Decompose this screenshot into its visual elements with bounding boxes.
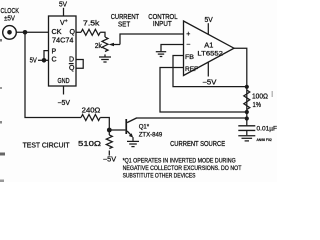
wire Q output: [76, 31, 81, 33]
svg-text:−5V: −5V: [57, 100, 70, 107]
svg-text:*Q1 OPERATES IN INVERTED MODE: *Q1 OPERATES IN INVERTED MODE DURING: [123, 157, 236, 164]
svg-text:ZTX-849: ZTX-849: [139, 132, 163, 139]
scan artifacts left edge: [0, 39, 273, 182]
ground cap: [238, 136, 255, 141]
ground pot: [99, 57, 111, 62]
wire junction up to P pin: [44, 51, 49, 61]
svg-text:SET: SET: [118, 21, 131, 28]
svg-text:7.5k: 7.5k: [83, 20, 100, 27]
svg-text:240Ω: 240Ω: [82, 107, 101, 114]
svg-text:SUBSTITUTE OTHER DEVICES: SUBSTITUTE OTHER DEVICES: [123, 172, 196, 179]
wire collector to sense node: [136, 117, 247, 119]
svg-text:−5V: −5V: [103, 157, 117, 164]
svg-text:Q: Q: [70, 29, 76, 36]
resistor R3 100 ohm 1%: [244, 90, 250, 110]
svg-text:REF: REF: [185, 66, 198, 73]
node clock junction: [23, 30, 28, 35]
clock connector J1: [0, 8, 19, 39]
svg-text:A1: A1: [204, 42, 213, 49]
wire 7.5k to pot top: [100, 32, 105, 37]
svg-text:Q1*: Q1*: [139, 123, 150, 130]
svg-text:INPUT: INPUT: [153, 21, 172, 28]
svg-text:CURRENT SOURCE: CURRENT SOURCE: [170, 141, 225, 148]
op-amp U2 LT6552: [184, 21, 235, 76]
svg-text:2k: 2k: [95, 43, 102, 50]
svg-text:74C74: 74C74: [52, 38, 74, 45]
svg-text:+: +: [65, 19, 68, 25]
node P/C junction: [42, 58, 47, 63]
svg-text:−: −: [186, 42, 190, 49]
flip-flop U1 74C74: [49, 16, 77, 86]
svg-text:Q: Q: [69, 65, 75, 72]
svg-text:−5V: −5V: [202, 79, 216, 86]
wire 240 to base node: [100, 118, 109, 131]
svg-text:+: +: [186, 31, 190, 38]
svg-text:D: D: [69, 56, 74, 63]
svg-text:5V: 5V: [30, 58, 37, 65]
svg-text:TEST CIRCUIT: TEST CIRCUIT: [23, 141, 71, 150]
node base junction: [107, 128, 112, 133]
transistor Q1 ZTX-849: [125, 118, 136, 138]
svg-text:NEGATIVE COLLECTOR EXCURSIONS.: NEGATIVE COLLECTOR EXCURSIONS. DO NOT: [123, 165, 242, 172]
node REF junction: [245, 110, 249, 114]
wire 5V to C pin: [38, 59, 49, 61]
svg-text:CLOCK: CLOCK: [0, 8, 19, 15]
ground emitter: [127, 141, 139, 146]
svg-text:5V: 5V: [59, 2, 67, 9]
wire clock down left side: [25, 32, 81, 117]
node collector junction: [245, 116, 249, 120]
svg-text:LT6552: LT6552: [197, 51, 223, 58]
wire emitter to ground: [132, 137, 134, 141]
ground minus input: [156, 52, 166, 57]
wire REF to bottom of sense resistor: [160, 68, 247, 113]
wire FB to top of sense resistor: [173, 56, 247, 87]
svg-text:CONTROL: CONTROL: [148, 14, 177, 21]
svg-text:1%: 1%: [253, 100, 262, 109]
svg-text:±5V: ±5V: [4, 16, 15, 23]
wire 5V to V+: [63, 8, 65, 16]
svg-text:P: P: [52, 49, 57, 56]
wiper arrow of pot: [109, 43, 114, 47]
svg-text:AN98 F02: AN98 F02: [257, 138, 272, 142]
capacitor C1 0.01uF: [238, 126, 255, 131]
wire - input to ground: [161, 45, 184, 52]
-5V supply op-amp: [207, 62, 209, 77]
svg-text:FB: FB: [185, 54, 194, 61]
svg-text:GND: GND: [57, 78, 69, 85]
svg-text:0.01µF: 0.01µF: [257, 125, 278, 132]
note text: [123, 157, 242, 179]
svg-text:CK: CK: [52, 29, 62, 36]
wire D to Q-bar feedback loop: [76, 60, 83, 69]
svg-text:CURRENT: CURRENT: [111, 14, 140, 21]
wire GND pin down: [63, 86, 65, 95]
wire to Q1 base: [109, 129, 125, 131]
wire clock to CK: [16, 31, 48, 33]
wire op-amp output down: [234, 48, 247, 125]
wire wiper to op-amp + input: [120, 34, 184, 45]
svg-text:5V: 5V: [205, 17, 214, 24]
svg-text:C: C: [52, 56, 57, 63]
svg-text:510Ω: 510Ω: [78, 139, 102, 148]
node FB junction: [245, 85, 249, 89]
